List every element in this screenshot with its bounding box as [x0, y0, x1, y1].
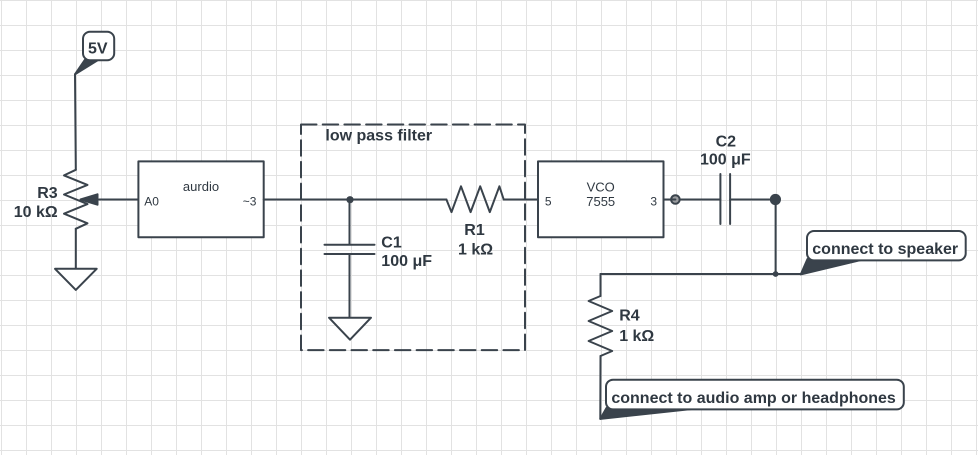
resistor R4: [589, 296, 613, 356]
svg-text:1 kΩ: 1 kΩ: [619, 328, 654, 345]
svg-text:3: 3: [650, 194, 657, 208]
svg-text:5: 5: [545, 194, 552, 208]
svg-text:100 μF: 100 μF: [700, 151, 751, 168]
output node (gray terminal): [671, 195, 680, 204]
wire node A to C1: [349, 200, 351, 244]
wire 5V to R3: [74, 74, 77, 170]
wiper arrow of R3: [81, 194, 139, 204]
svg-text:100 μF: 100 μF: [381, 253, 432, 270]
wire pin 3 to output node: [664, 199, 676, 201]
svg-text:VCO: VCO: [587, 180, 615, 195]
ground (below R3): [55, 269, 97, 290]
svg-text:aurdio: aurdio: [183, 179, 219, 194]
svg-text:C1: C1: [381, 235, 402, 252]
svg-text:C2: C2: [716, 133, 737, 150]
wire junction to R4 corner: [601, 273, 776, 275]
svg-text:~3: ~3: [243, 194, 257, 208]
svg-text:10 kΩ: 10 kΩ: [14, 204, 58, 221]
callout connect to speaker: [801, 231, 966, 274]
module aurdio: [138, 161, 263, 237]
svg-text:connect to speaker: connect to speaker: [812, 241, 958, 258]
wire ~3 to node A: [264, 199, 350, 201]
wire R3 to ground: [75, 229, 77, 269]
low pass filter dashed region: [301, 125, 525, 351]
svg-text:7555: 7555: [586, 194, 615, 209]
wire R1 to VCO pin 5: [504, 199, 538, 201]
capacitor C2: [720, 174, 730, 224]
wire junction to speaker callout: [776, 273, 801, 275]
wire output node to C2: [680, 199, 721, 201]
wire C1 to ground: [349, 254, 351, 318]
svg-text:low pass filter: low pass filter: [325, 128, 432, 145]
svg-text:R3: R3: [37, 185, 58, 202]
node B (dark terminal): [770, 194, 781, 205]
svg-text:connect to audio amp or headph: connect to audio amp or headphones: [611, 390, 896, 407]
svg-text:R4: R4: [619, 308, 640, 325]
IC VCO 7555: [538, 161, 664, 237]
junction (speaker tap): [773, 271, 779, 277]
svg-text:R1: R1: [464, 222, 485, 239]
power callout 5V: [75, 32, 114, 75]
callout connect to audio amp or headphones: [600, 380, 904, 419]
resistor R1: [446, 186, 503, 212]
wire C2 to node B: [730, 199, 769, 201]
svg-text:5V: 5V: [88, 40, 108, 57]
wire corner down to R4: [600, 274, 602, 296]
wire node B down to junction: [775, 205, 777, 274]
ground (below C1): [329, 318, 371, 340]
wire node A to R1: [350, 199, 447, 201]
svg-text:A0: A0: [144, 194, 159, 208]
resistor R3 (potentiometer): [64, 170, 88, 229]
node A (junction of C1 tap): [346, 196, 353, 203]
capacitor C1: [325, 245, 375, 254]
wire R4 to audio amp callout: [599, 356, 601, 419]
svg-text:1 kΩ: 1 kΩ: [458, 242, 493, 259]
